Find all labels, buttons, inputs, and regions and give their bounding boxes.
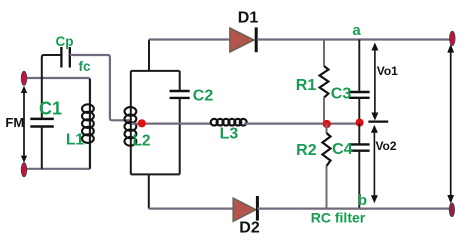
svg-text:Vo2: Vo2	[375, 139, 396, 153]
inductor L2 coil loops	[124, 107, 136, 146]
svg-text:D2: D2	[239, 220, 260, 237]
svg-text:R2: R2	[296, 142, 317, 159]
svg-text:Cp: Cp	[56, 34, 74, 49]
capacitor C1 plates	[30, 119, 54, 127]
capacitor C1 bottom lead	[41, 127, 43, 169]
FM source arrow	[23, 89, 25, 161]
svg-text:fc: fc	[78, 59, 90, 74]
svg-text:L1: L1	[66, 131, 84, 148]
wire bottom-left rail	[24, 168, 90, 170]
secondary tank box top edge	[131, 70, 180, 72]
resistor R1 zigzag	[320, 66, 329, 98]
svg-text:L2: L2	[132, 133, 150, 150]
wire Cp to L2 center tap	[70, 55, 131, 120]
svg-text:Vo1: Vo1	[377, 64, 398, 78]
capacitor C3 plates	[349, 92, 370, 98]
secondary tank box bottom edge	[131, 173, 180, 175]
capacitor C2 plates	[170, 91, 190, 98]
reference tick between Vo1 and Vo2	[368, 120, 388, 122]
inductor L2 lead (box left edge)	[130, 71, 132, 174]
wire top rail left of D1	[149, 38, 230, 40]
junction node C3-C4 mid rail	[356, 119, 364, 127]
capacitor Cp left lead	[42, 55, 61, 78]
diode D1 cathode bar	[255, 27, 258, 52]
capacitor C2 branch (box right edge)	[179, 71, 181, 174]
resistor R2 bottom lead	[326, 166, 328, 209]
wire top rail right of D1	[257, 38, 451, 40]
inductor L3 coil loops	[211, 119, 247, 126]
capacitor C1 top lead	[41, 78, 43, 119]
wire dropper box to bottom rail	[148, 174, 150, 208]
svg-text:L3: L3	[220, 126, 239, 143]
node output terminal top (a)	[450, 31, 455, 45]
Vo2 measurement arrow	[373, 129, 375, 200]
node bottom-left terminal	[21, 163, 26, 177]
resistor R2 top lead	[326, 124, 328, 133]
wire bottom rail left of D2	[149, 208, 233, 210]
wire bottom rail right of D2	[257, 208, 450, 210]
wire top-left rail node to L1	[24, 78, 90, 169]
wire mid rail left of L3	[132, 122, 213, 124]
capacitor C4 plates	[349, 144, 370, 150]
junction node at L2 center tap	[138, 119, 146, 127]
junction node a-R1 mid rail	[323, 120, 331, 128]
svg-text:R1: R1	[296, 77, 317, 94]
diode D2 cathode bar	[256, 196, 259, 221]
inductor L1 lead	[89, 79, 91, 169]
resistor R2 zigzag	[322, 133, 330, 166]
Vo1 measurement arrow	[374, 47, 376, 117]
inductor L1 coil loops	[82, 104, 94, 143]
node top-left terminal	[21, 71, 26, 85]
node output terminal bottom (b)	[449, 203, 454, 217]
svg-text:C1: C1	[39, 99, 62, 119]
svg-text:C3: C3	[331, 86, 352, 103]
capacitor C4 top lead	[358, 124, 360, 145]
capacitor C4 bottom lead	[358, 151, 360, 209]
diode D1	[230, 28, 254, 52]
resistor R1 top lead	[323, 40, 325, 67]
resistor R1 bottom lead	[323, 98, 325, 124]
svg-text:a: a	[352, 22, 361, 39]
output measurement arrow right	[450, 48, 452, 200]
capacitor C3 bottom lead	[358, 98, 360, 124]
diode D2	[233, 198, 256, 221]
svg-text:D1: D1	[238, 9, 259, 26]
svg-text:FM: FM	[5, 115, 24, 130]
wire mid rail right of L3	[244, 122, 360, 124]
capacitor C3 top lead	[358, 40, 360, 92]
svg-text:b: b	[358, 192, 367, 209]
svg-text:RC filter: RC filter	[311, 210, 366, 226]
capacitor Cp plates	[61, 47, 69, 68]
wire riser box to top rail	[148, 40, 150, 71]
svg-text:C2: C2	[193, 88, 214, 105]
svg-text:C4: C4	[332, 141, 353, 158]
